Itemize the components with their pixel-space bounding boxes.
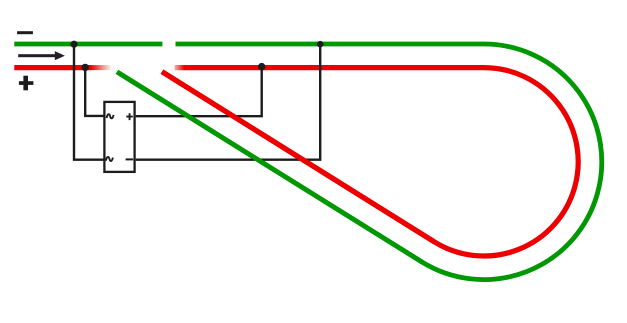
inner loop rail diagonal overlay (red over wires): [162, 72, 434, 242]
junction dot on outer rail at W1: [70, 41, 77, 48]
wire W4 from converter minus output to outer loop rail: [136, 44, 321, 160]
junction dot on inner loop rail at W3: [258, 63, 265, 70]
outer loop rail (green): straight, 208deg arc, tangent diagonal: [117, 44, 602, 280]
plus polarity label at feeder: [19, 76, 34, 91]
minus polarity label at feeder: [17, 31, 33, 34]
wire W3 from converter plus output to inner loop rail: [136, 67, 262, 116]
U1 lower AC input tilde: [106, 157, 113, 161]
U1 upper AC input tilde: [107, 114, 114, 118]
junction dot on outer loop rail at W4: [317, 41, 324, 48]
outer loop rail diagonal overlay (green over wires): [117, 72, 422, 262]
insulated gap fade-in on inner loop rail: [174, 65, 185, 71]
U1 plus output label: [126, 113, 133, 120]
inner rail feeder segment (red, fading at insulating gap): [14, 65, 91, 70]
wire W1 from outer rail to converter lower input: [74, 44, 104, 160]
outer rail feeder segment (green, left of insulating gap): [14, 42, 162, 47]
junction dot on inner rail at W2: [82, 64, 89, 71]
inner loop rail (red): straight, 208deg arc, tangent diagonal: [162, 68, 578, 256]
polarity converter module U1: [104, 102, 134, 172]
wire W2 from inner rail to converter upper input: [85, 67, 104, 116]
U1 minus output label: [126, 158, 134, 160]
travel direction arrow: [18, 51, 65, 60]
